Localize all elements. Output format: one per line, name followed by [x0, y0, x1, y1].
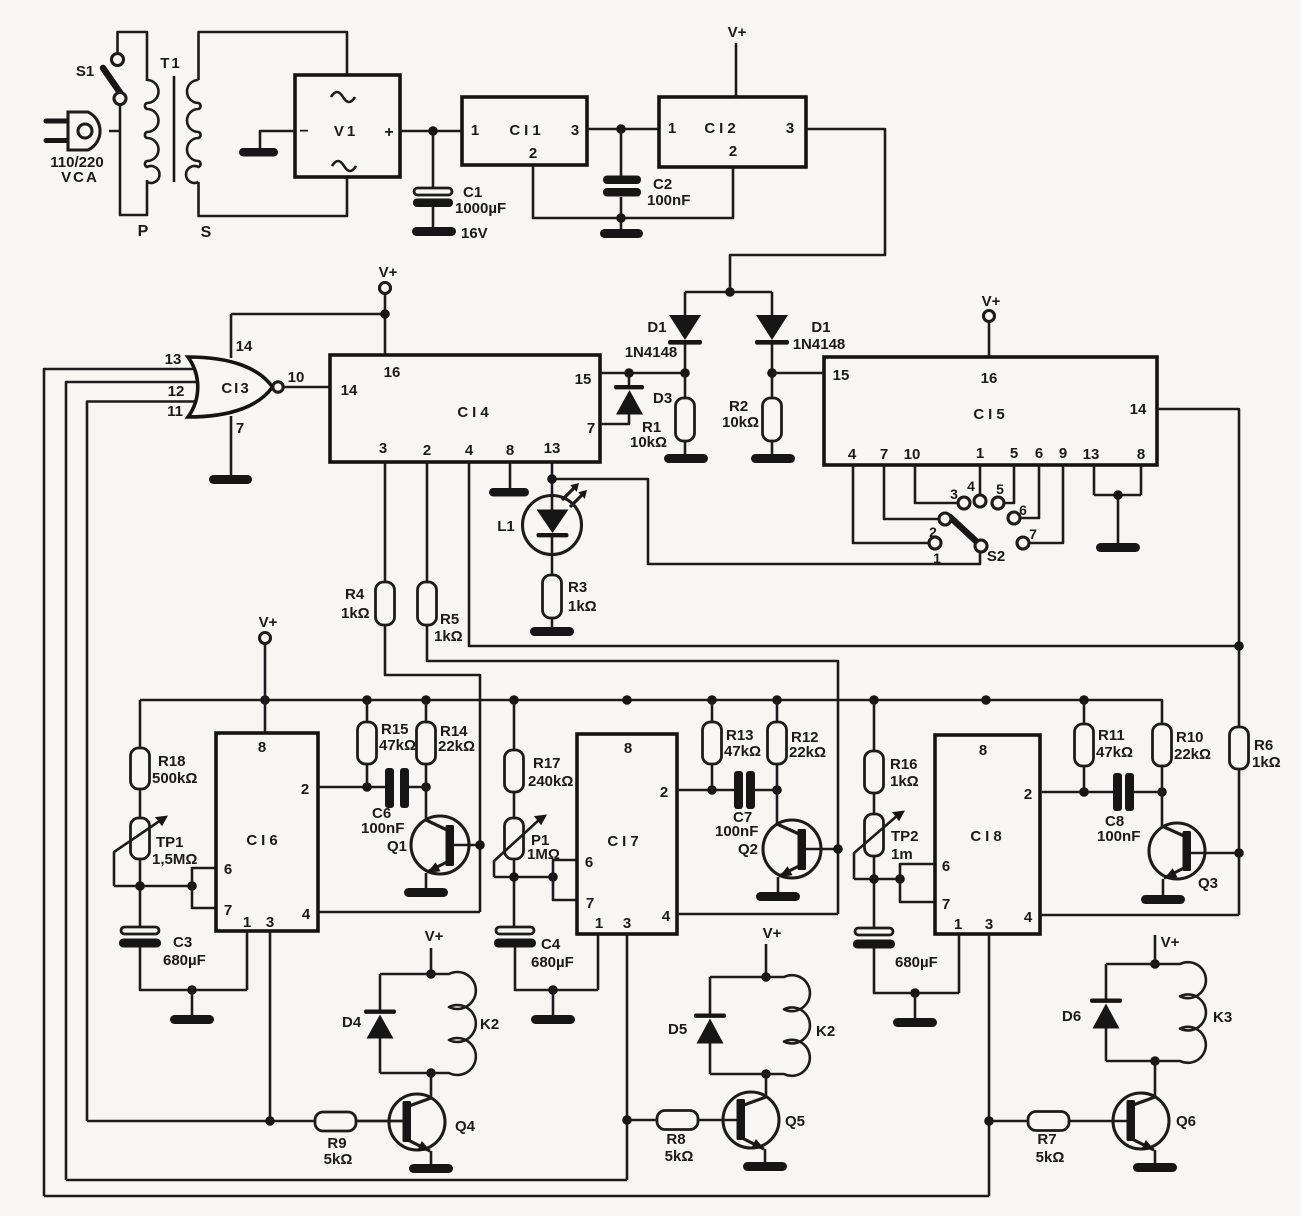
svg-text:7: 7	[586, 895, 594, 912]
node junction D3 top	[624, 368, 634, 378]
node junction R7 feed	[984, 1116, 994, 1126]
svg-text:2: 2	[423, 442, 431, 459]
svg-text:V1: V1	[334, 123, 358, 140]
wire CI6 pin1	[246, 931, 249, 990]
wire bracket pins 6 and 7 CI7	[553, 860, 577, 900]
IC CI4	[330, 355, 600, 462]
svg-text:4: 4	[967, 478, 975, 494]
wire CI5 pin6 to S2 contact 6	[1020, 465, 1039, 518]
wire CI4 pin13 to LED and S2 rotor	[552, 462, 980, 564]
wire CI3 output pin10 to CI4 pin14	[283, 386, 330, 389]
svg-text:R16: R16	[890, 756, 918, 773]
potentiometer P1 1M	[505, 818, 524, 859]
wire CI5 pin1 to S2 contact 4	[979, 465, 982, 495]
node junction R8 feed	[622, 1115, 632, 1125]
resistor R7 5k	[1028, 1112, 1069, 1131]
resistor R5 1k	[418, 582, 437, 625]
svg-text:1: 1	[954, 916, 962, 933]
svg-text:C2: C2	[653, 176, 672, 193]
svg-text:S1: S1	[76, 63, 94, 80]
capacitor C8 100nF	[1113, 773, 1122, 811]
wire plug to switch and primary bottom	[109, 32, 147, 215]
svg-text:1kΩ: 1kΩ	[341, 605, 370, 622]
svg-text:R6: R6	[1254, 737, 1273, 754]
svg-text:L1: L1	[497, 518, 515, 535]
wire CI1 pin2 down	[533, 165, 621, 218]
svg-text:CI6: CI6	[246, 832, 281, 849]
svg-text:13: 13	[544, 440, 561, 457]
wire CI2 pin3 down to diodes	[730, 129, 885, 292]
svg-text:3: 3	[623, 915, 631, 932]
relay K3 frame	[1105, 964, 1108, 1061]
IC CI6	[216, 733, 318, 931]
svg-text:8: 8	[1137, 446, 1145, 463]
ground (C2)	[600, 229, 643, 238]
node junction V+ rail	[380, 309, 390, 319]
transistor Q1	[425, 787, 428, 821]
svg-text:1kΩ: 1kΩ	[568, 598, 597, 615]
diode D5	[694, 1014, 726, 1018]
ground (CI4 pin8)	[489, 488, 529, 497]
ground (R1)	[664, 454, 708, 463]
wire P1 wiper to pins 6-7	[494, 876, 553, 879]
svg-text:5kΩ: 5kΩ	[1036, 1149, 1065, 1166]
svg-text:15: 15	[833, 367, 850, 384]
svg-text:1N4148: 1N4148	[625, 344, 678, 361]
transistor Q2	[776, 790, 779, 825]
relay K2 (middle) frame	[709, 977, 712, 1074]
node junction at C2 bottom	[616, 213, 626, 223]
svg-text:1kΩ: 1kΩ	[890, 773, 919, 790]
resistor R9 5k	[315, 1112, 356, 1131]
wire CI4 pin15 to D1	[600, 372, 685, 375]
relay coil K2 (middle)	[710, 975, 810, 1076]
svg-text:9: 9	[1059, 445, 1067, 462]
wire TP2 wiper to pins 6-7	[854, 878, 900, 881]
svg-text:Q3: Q3	[1198, 875, 1218, 892]
svg-text:6: 6	[942, 858, 950, 875]
resistor R1 10k	[684, 373, 687, 455]
bridge rectifier V1	[295, 75, 400, 177]
wire CI8 pin1	[958, 934, 961, 993]
svg-text:11: 11	[167, 403, 183, 420]
wire to CI5 pin15	[772, 372, 824, 375]
svg-text:S: S	[201, 224, 212, 241]
svg-text:3: 3	[379, 440, 387, 457]
svg-text:8: 8	[506, 442, 514, 459]
svg-text:100nF: 100nF	[647, 192, 690, 209]
svg-text:47kΩ: 47kΩ	[379, 737, 416, 754]
ground (Q4)	[409, 1164, 453, 1173]
svg-text:6: 6	[585, 854, 593, 871]
svg-text:+: +	[384, 124, 393, 141]
svg-text:1kΩ: 1kΩ	[434, 628, 463, 645]
svg-text:5: 5	[996, 481, 1004, 497]
resistor R13 47k	[711, 700, 714, 790]
svg-text:8: 8	[979, 742, 987, 759]
svg-text:TP1: TP1	[156, 834, 184, 851]
svg-text:3: 3	[950, 486, 958, 502]
wire CI7 pin3 long down	[626, 934, 629, 1180]
wire CI4 pin8 to ground	[509, 462, 512, 489]
ground (R2)	[751, 454, 795, 463]
transformer T1 core	[173, 76, 176, 182]
svg-text:V+: V+	[763, 925, 782, 942]
resistor R2 10k	[771, 373, 774, 455]
svg-text:1: 1	[595, 915, 603, 932]
wire V+ to CI5	[988, 322, 991, 357]
svg-text:8: 8	[258, 739, 266, 756]
svg-text:10: 10	[904, 446, 921, 463]
resistor R16 1k	[865, 751, 884, 793]
wire R17/P1 column	[513, 700, 516, 928]
svg-text:R17: R17	[533, 755, 561, 772]
wire bracket pins 6 and 7 CI8	[900, 864, 935, 902]
svg-text:V+: V+	[259, 614, 278, 631]
wire to both diodes	[685, 292, 772, 373]
svg-text:500kΩ: 500kΩ	[152, 770, 197, 787]
svg-text:S2: S2	[987, 548, 1005, 565]
svg-text:D1: D1	[647, 319, 666, 336]
svg-text:2: 2	[929, 524, 937, 540]
svg-text:R8: R8	[666, 1131, 685, 1148]
wire CI5 pin14 to R6 column	[1157, 409, 1239, 727]
wire R18/TP1 column	[139, 700, 142, 928]
resistor R10 22k	[1161, 766, 1164, 792]
svg-text:CI4: CI4	[457, 404, 492, 421]
wire V+ to CI2 top	[735, 43, 738, 97]
relay coil K2 (left)	[380, 972, 476, 1075]
diode D4	[364, 1010, 396, 1014]
ground (cap CI8 section)	[893, 1018, 937, 1027]
svg-text:7: 7	[880, 446, 888, 463]
diode D3	[600, 373, 629, 424]
svg-text:10: 10	[288, 369, 305, 386]
ground (CI5)	[1096, 543, 1140, 552]
capacitor C3 680uF	[121, 927, 159, 934]
svg-text:CI2: CI2	[704, 120, 739, 137]
svg-text:4: 4	[302, 906, 311, 923]
wire CI8 pin3 long down	[988, 934, 991, 1196]
svg-text:R5: R5	[440, 611, 459, 628]
svg-text:2: 2	[301, 781, 309, 798]
svg-text:2: 2	[529, 145, 537, 162]
ground (C4)	[531, 1015, 575, 1024]
svg-text:CI1: CI1	[509, 122, 544, 139]
wire CI5 pin7 to S2 contact 2	[884, 465, 939, 519]
svg-text:4: 4	[662, 908, 671, 925]
S2 contact circles	[929, 537, 941, 549]
svg-text:10kΩ: 10kΩ	[722, 414, 759, 431]
svg-text:V+: V+	[425, 928, 444, 945]
svg-text:2: 2	[729, 143, 737, 160]
svg-text:Q6: Q6	[1176, 1113, 1196, 1130]
svg-text:14: 14	[341, 382, 358, 399]
svg-text:R10: R10	[1176, 729, 1204, 746]
svg-text:C4: C4	[541, 936, 561, 953]
capacitor C1 1000uF 16V	[432, 131, 435, 227]
wire CI4 pin3 to R4	[385, 462, 480, 912]
AC plug 110/220	[44, 112, 101, 150]
ground (Q5)	[743, 1162, 787, 1171]
svg-text:1: 1	[243, 914, 251, 931]
wire CI3 pin14 V+	[230, 314, 233, 358]
wire CI3 pin7 to ground	[230, 416, 233, 476]
svg-text:15: 15	[575, 371, 592, 388]
svg-text:16: 16	[981, 370, 998, 387]
ground (C3)	[170, 1015, 214, 1024]
trimpot TP2 1m	[865, 814, 884, 856]
svg-text:V+: V+	[982, 293, 1001, 310]
ground (R3)	[530, 627, 574, 636]
diode D6	[1090, 999, 1122, 1003]
wire input 11	[87, 402, 201, 1122]
IC CI7	[577, 734, 677, 934]
wire bottom feedback line CI8 pin3 to input 13	[44, 1195, 989, 1198]
svg-text:6: 6	[224, 861, 232, 878]
svg-text:22kΩ: 22kΩ	[1174, 746, 1211, 763]
wire input 13	[44, 369, 200, 1196]
wire CI7 pin4	[677, 913, 838, 916]
node junction D1-R1	[680, 368, 690, 378]
svg-text:R13: R13	[726, 727, 754, 744]
resistor R17 240k	[505, 750, 524, 792]
resistor R11 47k	[1083, 700, 1086, 792]
resistor R15 47k	[366, 700, 369, 787]
svg-text:14: 14	[236, 338, 253, 355]
svg-text:2: 2	[1024, 786, 1032, 803]
wire CI7 pin1	[597, 934, 600, 990]
node junction Q2 base	[833, 844, 843, 854]
svg-text:14: 14	[1130, 401, 1147, 418]
svg-text:100nF: 100nF	[715, 823, 758, 840]
svg-text:47kΩ: 47kΩ	[724, 743, 761, 760]
svg-text:R7: R7	[1037, 1131, 1056, 1148]
svg-text:1: 1	[668, 120, 676, 137]
svg-text:6: 6	[1019, 502, 1027, 518]
svg-text:22kΩ: 22kΩ	[789, 744, 826, 761]
transistor Q3	[1161, 792, 1164, 827]
svg-text:K2: K2	[816, 1023, 835, 1040]
wire CI4 pin4 long to right column	[469, 462, 1239, 646]
svg-text:1: 1	[471, 122, 479, 139]
wire CI5 pin13+pin8 to ground	[1094, 465, 1141, 544]
wire V+ bus	[140, 700, 1162, 724]
svg-text:Q1: Q1	[387, 838, 407, 855]
ground (Q2)	[756, 892, 800, 901]
svg-text:3: 3	[786, 120, 794, 137]
wire V+ to CI4 pin16 and CI3 pin14	[231, 294, 385, 355]
node junction at C2 top	[616, 124, 626, 134]
resistor R12 22k	[776, 700, 779, 790]
wire CI2 pin2 down	[621, 167, 733, 218]
resistor R18 500k	[131, 748, 150, 789]
svg-text:Q5: Q5	[785, 1113, 805, 1130]
svg-text:100nF: 100nF	[1097, 828, 1140, 845]
svg-text:5kΩ: 5kΩ	[665, 1148, 694, 1165]
svg-text:3: 3	[985, 916, 993, 933]
svg-text:CI8: CI8	[970, 828, 1005, 845]
svg-text:R15: R15	[381, 721, 409, 738]
svg-text:K3: K3	[1213, 1009, 1232, 1026]
wire bottom feedback line CI7 pin3 to input 12	[66, 1179, 627, 1182]
svg-text:1m: 1m	[891, 846, 913, 863]
node junction pins13-8	[1113, 490, 1123, 500]
capacitor C4 680uF	[496, 927, 534, 934]
transformer T1 primary winding	[145, 80, 160, 183]
svg-text:4: 4	[465, 442, 474, 459]
trimpot TP1 1.5M	[131, 818, 150, 859]
wire to R7	[989, 1120, 1028, 1123]
svg-text:4: 4	[848, 446, 857, 463]
svg-text:T1: T1	[160, 55, 182, 72]
svg-text:V+: V+	[728, 24, 747, 41]
svg-text:16V: 16V	[461, 225, 488, 242]
svg-text:R4: R4	[345, 586, 365, 603]
ground (Q6)	[1133, 1163, 1177, 1172]
svg-text:D1: D1	[811, 319, 830, 336]
svg-text:VCA: VCA	[61, 169, 99, 186]
svg-text:680µF: 680µF	[163, 952, 206, 969]
capacitor 680uF (TP2 section)	[855, 928, 893, 935]
node junction Q1 base	[475, 840, 485, 850]
svg-text:7: 7	[224, 902, 232, 919]
transformer T1 secondary winding	[186, 80, 201, 183]
resistor R6 1k	[1238, 768, 1241, 915]
wire CI8 pin2 to C8	[1040, 791, 1113, 794]
svg-text:6: 6	[1035, 445, 1043, 462]
diode D1 (left) 1N4148	[669, 315, 701, 340]
svg-text:P: P	[138, 223, 149, 240]
resistor R8 5k	[657, 1111, 698, 1130]
resistor R3 1k	[543, 575, 562, 618]
wire TP1 wiper to pins 6-7	[114, 885, 192, 888]
svg-text:680µF: 680µF	[895, 954, 938, 971]
svg-text:TP2: TP2	[891, 828, 919, 845]
NOR gate CI3 body	[188, 357, 273, 417]
transistor Q6	[1154, 1061, 1157, 1098]
wire CI8 pin4	[1040, 914, 1239, 917]
svg-text:12: 12	[168, 383, 185, 400]
wire CI1 pin3 to CI2 pin1	[587, 128, 659, 131]
ground (Q1)	[404, 888, 448, 897]
IC CI1	[462, 97, 587, 165]
node junction Q3 base	[1234, 848, 1244, 858]
svg-text:10kΩ: 10kΩ	[630, 434, 667, 451]
svg-text:2: 2	[660, 784, 668, 801]
relay coil K3	[1106, 962, 1206, 1063]
node junction at C1	[428, 126, 438, 136]
output inversion bubble	[273, 382, 283, 392]
relay K2 (left) frame	[379, 974, 382, 1073]
switch S2 lever	[950, 517, 978, 543]
ground (Q3)	[1141, 895, 1185, 904]
svg-text:1: 1	[933, 550, 941, 566]
svg-text:3: 3	[571, 122, 579, 139]
capacitor C2 100nF	[620, 129, 623, 229]
svg-text:13: 13	[1083, 446, 1100, 463]
wire CI7 pin2 to C7	[677, 789, 734, 792]
svg-text:CI5: CI5	[973, 406, 1008, 423]
wire to R8	[627, 1119, 657, 1122]
svg-text:C1: C1	[463, 184, 482, 201]
svg-text:7: 7	[942, 896, 950, 913]
svg-text:D5: D5	[668, 1021, 687, 1038]
svg-text:7: 7	[236, 420, 244, 437]
svg-text:CI7: CI7	[607, 833, 642, 850]
wire V1 minus to ground	[260, 131, 295, 149]
LED L1	[523, 496, 582, 555]
svg-text:7: 7	[1029, 526, 1037, 542]
svg-text:240kΩ: 240kΩ	[528, 773, 573, 790]
svg-text:R3: R3	[568, 579, 587, 596]
svg-text:680µF: 680µF	[531, 954, 574, 971]
svg-text:1kΩ: 1kΩ	[1252, 754, 1281, 771]
wire bracket pins 6 and 7	[192, 868, 216, 908]
svg-text:R9: R9	[327, 1135, 346, 1152]
svg-text:R18: R18	[158, 753, 186, 770]
svg-text:5kΩ: 5kΩ	[324, 1151, 353, 1168]
node junctions on bus	[260, 695, 270, 705]
IC CI2	[659, 97, 806, 167]
svg-text:Q4: Q4	[455, 1118, 476, 1135]
svg-text:D4: D4	[342, 1014, 362, 1031]
capacitor C7 100nF	[734, 771, 743, 809]
transistor Q4	[430, 1073, 433, 1099]
ground (V1 minus)	[239, 148, 278, 157]
svg-text:5: 5	[1010, 445, 1018, 462]
wire CI6 pin3 long down	[269, 931, 272, 1121]
node junction diode feed	[725, 287, 735, 297]
svg-text:13: 13	[165, 351, 182, 368]
svg-text:3: 3	[266, 914, 274, 931]
svg-text:1,5MΩ: 1,5MΩ	[152, 851, 197, 868]
svg-text:16: 16	[384, 364, 401, 381]
svg-text:Q2: Q2	[738, 841, 758, 858]
svg-text:V+: V+	[1161, 934, 1180, 951]
wire CI4 pin2 to R5	[427, 462, 838, 914]
capacitor C6 100nF	[385, 768, 394, 808]
node junction pin13	[547, 474, 557, 484]
svg-text:C3: C3	[173, 934, 192, 951]
svg-text:R11: R11	[1098, 727, 1125, 744]
resistor R14 22k	[425, 700, 428, 787]
transistor Q5	[765, 1074, 768, 1098]
node junction pin4-line / R6 column	[1234, 641, 1244, 651]
IC CI5	[824, 357, 1157, 465]
wire CI5 pin10 to S2 contact 3	[915, 465, 958, 503]
svg-text:22kΩ: 22kΩ	[438, 738, 475, 755]
svg-text:47kΩ: 47kΩ	[1096, 744, 1133, 761]
svg-text:4: 4	[1024, 909, 1033, 926]
wire CI6 pin4	[318, 911, 480, 914]
svg-text:1000µF: 1000µF	[455, 200, 506, 217]
svg-text:−: −	[299, 123, 308, 140]
S2 rotor	[975, 540, 987, 552]
svg-text:7: 7	[587, 420, 595, 437]
svg-text:100nF: 100nF	[361, 820, 404, 837]
wire V+ to bus and CI6 pin8	[264, 644, 267, 733]
ground (C1)	[412, 227, 456, 236]
wire CI5 pin9 to S2 contact 7	[1029, 465, 1063, 543]
svg-text:1N4148: 1N4148	[793, 336, 846, 353]
svg-text:CI3: CI3	[221, 380, 250, 397]
wire secondary to V1	[199, 32, 348, 216]
svg-text:K2: K2	[480, 1016, 499, 1033]
wire Q4 base line	[87, 1120, 315, 1123]
wire CI5 pin4 to S2 contact 1	[853, 465, 929, 543]
wire CI5 pin5 to S2 contact 5	[1004, 465, 1014, 503]
